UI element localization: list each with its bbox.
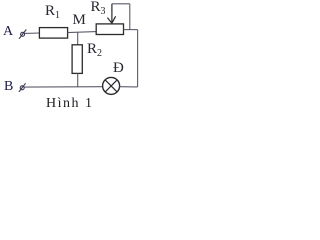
label A (3, 24, 13, 40)
terminal A circle (21, 32, 25, 36)
wire R3 right terminal to right rail (124, 29, 138, 31)
wire R1 to R3 (through node M) (68, 31, 97, 34)
label R3 (91, 0, 106, 17)
lamp D cross stroke 1 (105, 80, 117, 92)
terminal A slash (19, 30, 26, 39)
node M junction wire down to R2 (77, 32, 79, 45)
wire A to R1 (25, 32, 40, 34)
wire B to lamp (25, 86, 103, 88)
label R2 (87, 41, 102, 59)
lamp D cross stroke 2 (105, 80, 117, 92)
wire lamp to right rail (120, 86, 138, 88)
wire R2 to bottom wire (77, 73, 79, 87)
label M (73, 12, 86, 29)
rheostat R3 wiper arrow stem (111, 4, 113, 22)
terminal B slash (19, 83, 26, 92)
resistor R2 (72, 45, 82, 74)
label B (4, 79, 13, 95)
terminal B circle (20, 86, 24, 90)
rheostat R3 wiper arrowhead (107, 16, 115, 23)
resistor R3 (rheostat body) (96, 24, 123, 35)
wire wiper hook top horizontal (112, 3, 130, 5)
caption Hinh 1 (46, 96, 94, 112)
wire wiper hook down to right terminal (129, 4, 131, 30)
label D (lamp) (113, 60, 124, 77)
wire right rail down (137, 30, 139, 87)
lamp D circle (103, 77, 120, 94)
label R1 (45, 3, 60, 21)
resistor R1 (39, 28, 67, 38)
